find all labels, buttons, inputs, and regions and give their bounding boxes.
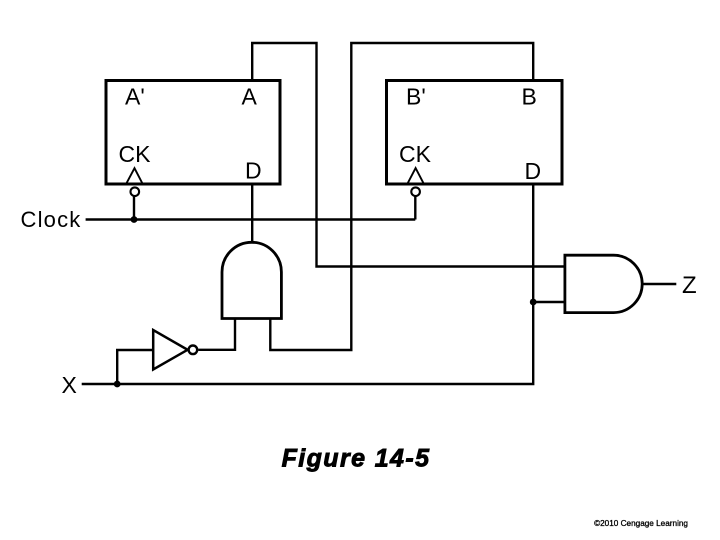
svg-text:A: A: [242, 84, 258, 110]
wire: riser branch to AND2 bottom input: [533, 301, 565, 303]
junction node: X tap: [114, 381, 121, 388]
wire: X line and riser to D of FF B: [82, 184, 534, 384]
wire: Clock line: [86, 218, 416, 220]
wire: A output up over and down to AND2 top input: [252, 43, 565, 267]
svg-text:D: D: [245, 158, 262, 184]
AND gate AND1 (points up): [222, 242, 281, 318]
wire: AND2 output to Z: [642, 283, 676, 285]
svg-text:D: D: [525, 158, 542, 184]
svg-text:CK: CK: [119, 141, 152, 167]
svg-text:B': B': [406, 83, 426, 109]
AND gate AND2 (points right): [565, 255, 642, 312]
clock bubble FF B: [411, 187, 420, 196]
svg-text:Clock: Clock: [21, 207, 82, 232]
wire: B output up over and down to AND1 right input: [270, 43, 533, 350]
junction node: clock tap: [131, 216, 138, 223]
wire: inverter output to AND1 left input: [198, 319, 235, 350]
svg-text:Z: Z: [682, 272, 697, 299]
svg-text:B: B: [522, 84, 537, 110]
clock bubble FF A: [131, 187, 140, 196]
svg-text:A': A': [125, 84, 145, 110]
svg-text:X: X: [62, 372, 77, 398]
inverter I1 bubble: [189, 346, 198, 355]
clock edge chevron FF B: [407, 168, 423, 184]
svg-text:©2010 Cengage Learning: ©2010 Cengage Learning: [594, 519, 688, 528]
svg-text:CK: CK: [399, 141, 432, 167]
junction node: AND2 lower input tap: [530, 299, 537, 306]
svg-text:Figure 14-5: Figure 14-5: [282, 445, 431, 473]
wire: clock riser to FF B bubble: [414, 196, 416, 219]
clock edge chevron FF A: [126, 168, 142, 184]
wire: X branch to inverter input: [117, 350, 152, 384]
wire: AND1 output to D of FF A: [251, 184, 253, 242]
inverter I1 triangle: [153, 330, 187, 370]
flip-flop FF B box: [387, 81, 563, 185]
wire: clock riser to FF A bubble: [133, 196, 135, 219]
flip-flop FF A box: [106, 81, 280, 185]
